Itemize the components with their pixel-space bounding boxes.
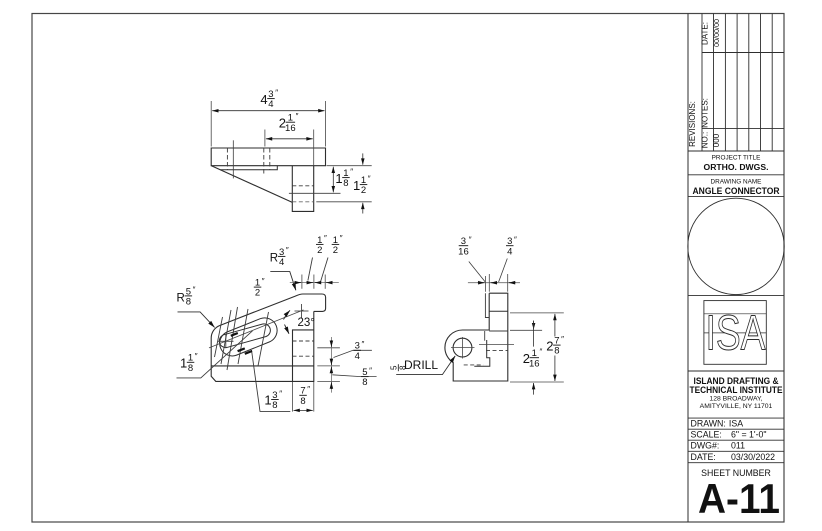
svg-text:NO.:: NO.: bbox=[701, 132, 710, 148]
side view inner face line bbox=[485, 293, 489, 317]
leader top 1/2 a bbox=[308, 258, 313, 281]
front view hidden line a bbox=[293, 340, 314, 342]
dim 2-1/16 text bbox=[523, 348, 543, 370]
svg-text:16: 16 bbox=[285, 123, 296, 134]
svg-text:DRAWING NAME: DRAWING NAME bbox=[711, 179, 762, 186]
svg-text:R: R bbox=[177, 292, 185, 304]
leader R3/4 bbox=[270, 272, 296, 291]
svg-text:″: ″ bbox=[369, 366, 372, 375]
title block section lines bbox=[688, 151, 784, 463]
svg-text:6" = 1'-0": 6" = 1'-0" bbox=[731, 430, 767, 440]
stamp circle bbox=[688, 198, 784, 294]
leader 1-1/8 bbox=[177, 331, 253, 378]
label 5/8 right bbox=[361, 366, 372, 388]
revisions table column lines bbox=[702, 14, 772, 152]
dim 1-1/8 top view text bbox=[335, 167, 353, 189]
front right dim ticks bbox=[317, 348, 340, 382]
svg-text:00/00/00: 00/00/00 bbox=[712, 19, 721, 47]
title block left edge bbox=[687, 14, 689, 523]
front view outline bbox=[211, 294, 325, 381]
side view slot centerline bbox=[479, 344, 514, 346]
front right dim arrows bbox=[330, 340, 332, 389]
svg-text:ISA: ISA bbox=[706, 307, 766, 361]
svg-text:1: 1 bbox=[335, 171, 342, 186]
leader 3/4 side bbox=[499, 259, 508, 283]
angular dim arc lower bbox=[285, 325, 290, 334]
slot dim arrow stroke 1 bbox=[231, 333, 238, 336]
svg-text:8: 8 bbox=[188, 363, 193, 374]
leader 1-3/8 bbox=[252, 350, 291, 411]
side view notch shoulder line bbox=[489, 310, 508, 312]
dim 1-1/2 outside arrows bbox=[362, 153, 364, 164]
svg-text:4: 4 bbox=[279, 257, 284, 268]
svg-text:8: 8 bbox=[343, 178, 348, 189]
svg-text:1: 1 bbox=[264, 393, 271, 408]
svg-text:011: 011 bbox=[731, 441, 745, 451]
top view diagonal edge bbox=[211, 166, 292, 203]
top view hidden line a bbox=[226, 148, 228, 170]
slot dim arrow stroke 2 bbox=[238, 348, 245, 351]
drill hole centerline horizontal bbox=[451, 347, 475, 349]
side view internal step profile bbox=[474, 340, 490, 366]
label R3/4 bbox=[270, 252, 278, 264]
svg-text:4: 4 bbox=[355, 351, 360, 362]
svg-text:″: ″ bbox=[469, 236, 472, 245]
dim 1-1/2 extension lines bbox=[316, 166, 371, 202]
angular dim arc upper bbox=[284, 310, 291, 319]
top 1/2 dims extension ticks bbox=[302, 275, 325, 289]
svg-text:″: ″ bbox=[350, 167, 353, 176]
label 5/8 rotated bbox=[390, 364, 408, 371]
svg-text:R: R bbox=[270, 252, 278, 264]
dim 1-1/2 text bbox=[353, 174, 371, 196]
ISA logo horizontal rules bbox=[704, 314, 766, 333]
slot left centerline cross bbox=[218, 334, 234, 349]
drill hole bbox=[453, 338, 472, 357]
svg-text:16: 16 bbox=[529, 358, 540, 369]
dim 2-1/16 arrows upper bbox=[533, 321, 535, 330]
slot width extension line 2 bbox=[221, 310, 231, 364]
dim 2-1/16 text bbox=[279, 112, 299, 134]
revisions table row lines bbox=[702, 53, 784, 129]
svg-text:ANGLE CONNECTOR: ANGLE CONNECTOR bbox=[693, 186, 781, 196]
svg-text:″: ″ bbox=[275, 88, 278, 97]
svg-text:2: 2 bbox=[317, 245, 322, 256]
svg-text:″: ″ bbox=[307, 385, 310, 394]
label 1-1/8 front bbox=[180, 352, 198, 374]
svg-text:ORTHO. DWGS.: ORTHO. DWGS. bbox=[704, 162, 769, 172]
leader 5/8 right bbox=[332, 375, 376, 377]
svg-text:NOTES:: NOTES: bbox=[701, 98, 710, 128]
leader 3/16 bbox=[469, 262, 486, 283]
dim 1-1/8 top view dimension line bbox=[332, 167, 334, 193]
dim 2-7/8 text bbox=[546, 335, 564, 357]
front view column left edge through base bbox=[292, 366, 294, 382]
angle vertex centerline cross bbox=[295, 304, 309, 318]
dim 4-3/4 extension lines bbox=[211, 101, 325, 147]
svg-text:4: 4 bbox=[507, 246, 512, 257]
slot outer stadium bbox=[220, 318, 277, 356]
svg-text:A-11: A-11 bbox=[698, 475, 780, 522]
dim 2-1/16 arrows lower bbox=[533, 383, 535, 395]
dim 2-1/16 extension lines bbox=[265, 130, 314, 166]
leader top 1/2 b bbox=[321, 258, 328, 282]
svg-text:2: 2 bbox=[361, 185, 366, 196]
svg-text:2: 2 bbox=[255, 288, 260, 299]
svg-text:8: 8 bbox=[186, 297, 191, 308]
slot width extension line 3 bbox=[227, 307, 238, 370]
dim 4-3/4 dimension line bbox=[212, 110, 324, 112]
svg-text:4: 4 bbox=[260, 92, 267, 107]
svg-text:5: 5 bbox=[390, 365, 399, 370]
svg-text:″: ″ bbox=[193, 286, 196, 295]
svg-text:″: ″ bbox=[514, 236, 517, 245]
svg-text:1: 1 bbox=[180, 356, 187, 371]
svg-text:DATE:: DATE: bbox=[701, 22, 710, 45]
svg-text:″: ″ bbox=[540, 348, 543, 357]
dim 2-7/8 dimension line upper bbox=[554, 314, 556, 337]
top view edge line at 193 bbox=[289, 192, 341, 194]
svg-text:03/30/2022: 03/30/2022 bbox=[731, 452, 775, 462]
dim 2-1/16 dimension line bbox=[266, 138, 313, 140]
top view hidden line in column lower bbox=[292, 201, 313, 203]
slot width extension line 1 bbox=[215, 317, 223, 357]
dim 7/8 extension lines bbox=[293, 382, 314, 412]
label R5/8 bbox=[177, 292, 185, 304]
svg-text:128 BROADWAY,: 128 BROADWAY, bbox=[709, 396, 762, 403]
slot inner stadium bbox=[219, 324, 270, 348]
label slot width 1/2 bbox=[254, 277, 265, 299]
svg-text:8: 8 bbox=[554, 346, 559, 357]
label R5/8 fraction bbox=[185, 286, 196, 308]
side view hidden line b bbox=[464, 364, 484, 366]
leader 3/4 right bbox=[334, 350, 372, 357]
slot width extension line 4 bbox=[238, 309, 248, 364]
top view hidden line b bbox=[263, 148, 265, 176]
svg-text:″: ″ bbox=[262, 277, 265, 286]
svg-text:DRILL: DRILL bbox=[404, 358, 438, 372]
svg-text:AMITYVILLE, NY 11701: AMITYVILLE, NY 11701 bbox=[700, 403, 773, 410]
svg-text:TECHNICAL INSTITUTE: TECHNICAL INSTITUTE bbox=[690, 385, 783, 395]
svg-text:23°: 23° bbox=[298, 317, 315, 329]
svg-text:1: 1 bbox=[353, 178, 360, 193]
svg-text:2: 2 bbox=[546, 338, 553, 353]
svg-text:DWG#:: DWG#: bbox=[691, 441, 720, 451]
drill hole centerline vertical bbox=[462, 337, 464, 359]
svg-text:16: 16 bbox=[458, 246, 469, 257]
top 1/2 dims arrows bbox=[295, 282, 332, 284]
leader DRILL bbox=[396, 356, 455, 375]
svg-text:8: 8 bbox=[362, 377, 367, 388]
svg-text:8: 8 bbox=[300, 396, 305, 407]
svg-text:DRAWN:: DRAWN: bbox=[691, 419, 726, 429]
leader R5/8 bbox=[178, 312, 215, 328]
svg-text:″: ″ bbox=[296, 112, 299, 121]
front view hidden line b bbox=[293, 355, 314, 357]
label 3/16 side bbox=[458, 236, 472, 258]
top view plate outline bbox=[211, 148, 325, 166]
label top 1/2 a bbox=[316, 234, 327, 256]
dim 2-7/8 dimension line lower bbox=[554, 356, 556, 382]
svg-text:2: 2 bbox=[333, 245, 338, 256]
svg-text:PROJECT TITLE: PROJECT TITLE bbox=[712, 154, 761, 161]
slot axis centerline 23 deg bbox=[209, 310, 304, 348]
top view hidden line in column bbox=[292, 185, 313, 187]
top view hidden line c bbox=[269, 148, 271, 170]
svg-text:REVISIONS:: REVISIONS: bbox=[688, 101, 697, 147]
side top dim arrows bbox=[478, 282, 516, 284]
svg-text:SCALE:: SCALE: bbox=[691, 430, 722, 440]
dim 2-7/8 extension lines bbox=[510, 313, 564, 382]
dim 4-3/4 text bbox=[260, 88, 278, 110]
label R3/4 fraction bbox=[278, 246, 289, 268]
svg-text:8: 8 bbox=[272, 400, 277, 411]
svg-text:DATE:: DATE: bbox=[691, 452, 716, 462]
dim 7/8 dimension line bbox=[294, 409, 313, 411]
side view tab top edge across wall bbox=[489, 330, 508, 332]
slot dim arrow stroke 3 bbox=[245, 351, 252, 354]
svg-text:″: ″ bbox=[561, 335, 564, 344]
dim 2-1/16 line upper bbox=[533, 321, 535, 347]
svg-text:″: ″ bbox=[279, 389, 282, 398]
top view column edges bbox=[292, 166, 313, 212]
side view step vertical bbox=[484, 331, 486, 341]
side view outline bbox=[445, 293, 508, 381]
svg-text:″: ″ bbox=[340, 234, 343, 243]
label 3/4 right bbox=[354, 340, 365, 362]
svg-text:″: ″ bbox=[286, 246, 289, 255]
top view centerline bbox=[232, 140, 234, 178]
svg-text:000: 000 bbox=[712, 133, 721, 147]
dim 7/8 text bbox=[299, 385, 310, 407]
front right dim line bbox=[330, 337, 332, 393]
label 3/4 side bbox=[506, 236, 517, 258]
label top 1/2 b bbox=[332, 234, 343, 256]
svg-text:″: ″ bbox=[324, 234, 327, 243]
top 1/2 dims dimension line bbox=[290, 282, 339, 284]
side view hidden line a bbox=[486, 349, 508, 351]
side top dim line bbox=[468, 282, 520, 284]
slot width extension line 5 bbox=[258, 312, 269, 366]
svg-text:″: ″ bbox=[195, 352, 198, 361]
label 1-3/8 front bbox=[264, 389, 282, 411]
svg-text:″: ″ bbox=[362, 340, 365, 349]
svg-text:ISA: ISA bbox=[729, 419, 743, 429]
svg-text:4: 4 bbox=[268, 99, 273, 110]
top view step edge bbox=[220, 166, 277, 170]
ISA logo box bbox=[704, 301, 766, 365]
front view base top edge bbox=[211, 365, 314, 367]
svg-text:″: ″ bbox=[368, 174, 371, 183]
side top dim extension lines bbox=[485, 274, 507, 292]
